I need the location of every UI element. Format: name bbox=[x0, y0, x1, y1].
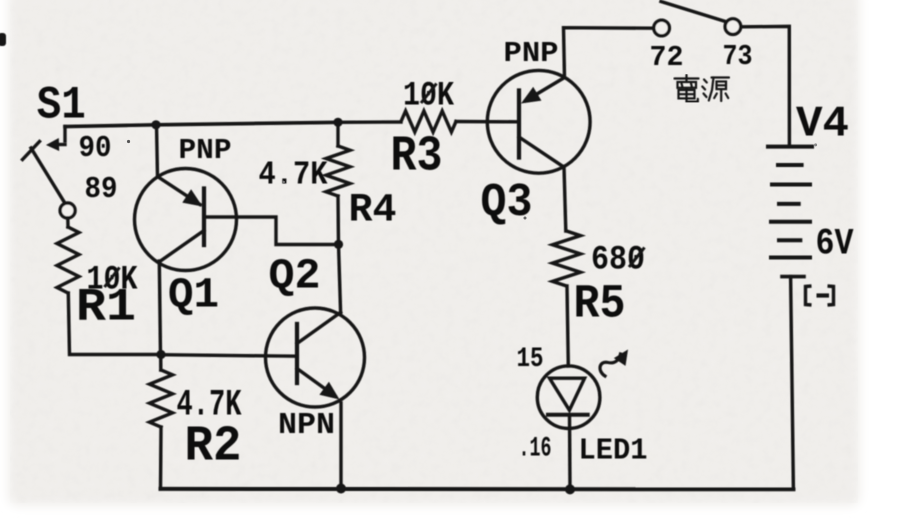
svg-text:NPN: NPN bbox=[278, 408, 335, 443]
wire Q1 base to junction D bbox=[204, 217, 339, 245]
wire Q3 collector to R5 bbox=[564, 167, 566, 232]
svg-text:73: 73 bbox=[723, 40, 753, 73]
wire terminal 73 to battery top bbox=[741, 26, 789, 146]
battery V4 plate long 1 bbox=[768, 145, 812, 149]
transistor Q3 circle bbox=[487, 70, 590, 173]
svg-text:R1: R1 bbox=[76, 282, 136, 334]
scan speck bbox=[0, 33, 6, 46]
wire contact to R1 bbox=[66, 218, 70, 227]
wire R4 to junction D bbox=[336, 196, 340, 245]
svg-text:4.7K: 4.7K bbox=[259, 157, 328, 194]
svg-text:PNP: PNP bbox=[504, 37, 559, 70]
svg-text:90: 90 bbox=[79, 131, 112, 166]
svg-text:10K: 10K bbox=[403, 78, 454, 116]
transistor Q1 base bar bbox=[202, 189, 206, 246]
wire junction C to Q2 base bbox=[161, 355, 296, 357]
LED1 triangle bbox=[550, 378, 585, 410]
transistor Q1 circle bbox=[135, 169, 237, 271]
svg-text:Q1: Q1 bbox=[168, 271, 219, 320]
transistor Q2 emitter arrowhead bbox=[319, 382, 339, 400]
battery V4 plate short 1 bbox=[778, 163, 802, 167]
scan specks bbox=[127, 140, 130, 143]
svg-text:PNP: PNP bbox=[179, 134, 232, 167]
wire Q2 emitter to bottom rail bbox=[339, 403, 342, 489]
svg-text:R4: R4 bbox=[349, 189, 397, 234]
svg-text:LED1: LED1 bbox=[579, 434, 648, 469]
wire top rail bbox=[65, 122, 338, 126]
battery V4 plate short 3 bbox=[779, 238, 800, 242]
switch S1 lever bbox=[31, 148, 65, 203]
switch S1 stub wire bbox=[63, 127, 66, 142]
resistor R3 10K bbox=[401, 111, 456, 132]
wire LED1 to bottom rail bbox=[568, 415, 572, 490]
battery V4 plate long 3 bbox=[771, 220, 810, 224]
label power 電源 (CJK drawn) bbox=[675, 75, 730, 102]
switch S1 contact circle (terminal 89) bbox=[60, 203, 75, 218]
wire battery negative to bottom rail bbox=[791, 277, 794, 489]
LED1 circle bbox=[537, 366, 600, 429]
wire junction D to Q2 collector bbox=[339, 245, 341, 313]
switch power terminal 73 circle bbox=[725, 19, 741, 35]
svg-text:V4: V4 bbox=[796, 100, 849, 150]
switch S1 lever end tick bbox=[23, 142, 40, 160]
transistor Q3 base bar bbox=[517, 91, 521, 158]
battery V4 plate long 4 bbox=[771, 256, 810, 260]
battery V4 plate long 2 bbox=[772, 183, 810, 187]
transistor Q2 circle bbox=[266, 308, 365, 407]
switch power lever bbox=[661, 2, 727, 23]
node junction B bbox=[333, 118, 342, 127]
svg-text:680: 680 bbox=[591, 242, 645, 280]
node junction C bbox=[156, 350, 165, 359]
resistor R5 680 bbox=[553, 231, 581, 286]
wire R1 bottom to junction C bbox=[68, 293, 161, 355]
svg-text:R5: R5 bbox=[574, 279, 626, 332]
transistor Q1 emitter line bbox=[158, 177, 201, 205]
wire bottom rail bbox=[161, 487, 794, 491]
svg-text:.16: .16 bbox=[519, 434, 552, 465]
wire R5 to LED1 bbox=[567, 286, 568, 366]
wire Q1 collector down to junction C bbox=[159, 261, 160, 355]
switch S1 arrow bbox=[54, 143, 65, 146]
wire junction A to Q1 emitter bbox=[157, 125, 158, 177]
svg-text:Q2: Q2 bbox=[269, 252, 321, 301]
battery V4 plate short 2 bbox=[779, 202, 799, 206]
wire junction B to R4 bbox=[336, 122, 339, 146]
transistor Q2 base bar bbox=[295, 324, 299, 383]
transistor Q3 collector line bbox=[519, 137, 563, 167]
wire junction C to R2 bbox=[159, 355, 163, 371]
node junction D bbox=[334, 240, 343, 249]
transistor Q1 emitter arrowhead bbox=[182, 189, 202, 206]
svg-text:15: 15 bbox=[517, 344, 544, 375]
svg-text:72: 72 bbox=[650, 41, 684, 74]
svg-text:R2: R2 bbox=[185, 419, 242, 476]
wire junction B to R3 bbox=[338, 120, 401, 124]
node junction F bbox=[565, 484, 575, 494]
node junction E bbox=[336, 484, 346, 494]
svg-text:89: 89 bbox=[85, 172, 118, 207]
wire R2 to bottom rail bbox=[159, 427, 163, 489]
LED1 cathode bar bbox=[548, 413, 588, 417]
wire R3 to Q3 base bbox=[456, 120, 517, 124]
label battery minus bbox=[806, 286, 834, 305]
transistor Q2 emitter line bbox=[297, 369, 335, 397]
svg-text:R3: R3 bbox=[391, 129, 443, 186]
resistor R2 4.7K bbox=[150, 370, 173, 427]
transistor Q3 emitter arrowhead bbox=[521, 87, 541, 104]
battery V4 negative terminal bar bbox=[782, 275, 804, 279]
resistor R4 4.7K bbox=[326, 146, 350, 196]
resistor R1 10K bbox=[57, 227, 79, 293]
transistor Q3 emitter line bbox=[526, 78, 565, 101]
svg-text:6V: 6V bbox=[816, 224, 855, 266]
switch power terminal 72 circle bbox=[654, 20, 670, 36]
transistor Q1 collector line bbox=[159, 231, 204, 263]
transistor Q2 collector line bbox=[297, 312, 341, 343]
LED1 light squiggle arrow bbox=[600, 354, 621, 376]
svg-text:S1: S1 bbox=[37, 80, 86, 132]
svg-text:Q3: Q3 bbox=[481, 177, 533, 230]
wire Q3 emitter to power switch bbox=[564, 28, 654, 78]
node junction A bbox=[151, 120, 160, 129]
